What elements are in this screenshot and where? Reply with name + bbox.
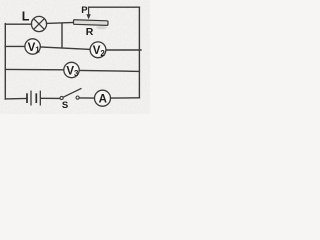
label R [86, 26, 94, 38]
battery (two cells) [27, 91, 40, 106]
wire switch to ammeter [79, 97, 94, 99]
scan smudge under rheostat right end [96, 26, 107, 29]
wire row2 right (V2 to rail) [106, 49, 141, 51]
wire right rail [138, 7, 140, 98]
wire row1 left (rail to lamp) [5, 23, 31, 25]
label P [81, 5, 88, 16]
wire ammeter to right rail [111, 97, 140, 99]
svg-text:R: R [86, 26, 94, 38]
label S [62, 100, 68, 111]
wire slider to right rail [89, 6, 140, 8]
voltmeter V3 [64, 62, 79, 78]
wire row2 middle (V1 to V2) [40, 47, 90, 49]
svg-text:P: P [81, 5, 88, 16]
paper noise [0, 0, 150, 114]
wire row3 right (V3 to rail) [79, 70, 139, 71]
label L [22, 10, 30, 24]
svg-text:A: A [99, 94, 107, 106]
lamp L [31, 16, 46, 31]
wire battery to switch [41, 97, 59, 99]
voltmeter V1 [25, 39, 40, 55]
svg-text:2: 2 [100, 49, 105, 58]
ammeter A [95, 90, 111, 106]
wire row2 left (rail to V1) [5, 45, 25, 47]
svg-text:L: L [22, 10, 30, 24]
switch S [60, 88, 82, 99]
svg-text:3: 3 [74, 69, 79, 78]
svg-text:S: S [62, 100, 68, 111]
voltmeter V2 [90, 42, 106, 58]
wire left rail [4, 24, 6, 99]
wire row4 left (rail to battery) [5, 98, 26, 100]
svg-text:1: 1 [35, 45, 40, 54]
slider arrow P of rheostat [86, 7, 90, 19]
wire row3 left (rail to V3) [5, 68, 64, 70]
wire row1 right (lamp to rheostat) [47, 22, 74, 25]
wire junction drop (node between L and R down to V1-V2 wire) [61, 23, 63, 48]
rheostat R [73, 20, 108, 26]
